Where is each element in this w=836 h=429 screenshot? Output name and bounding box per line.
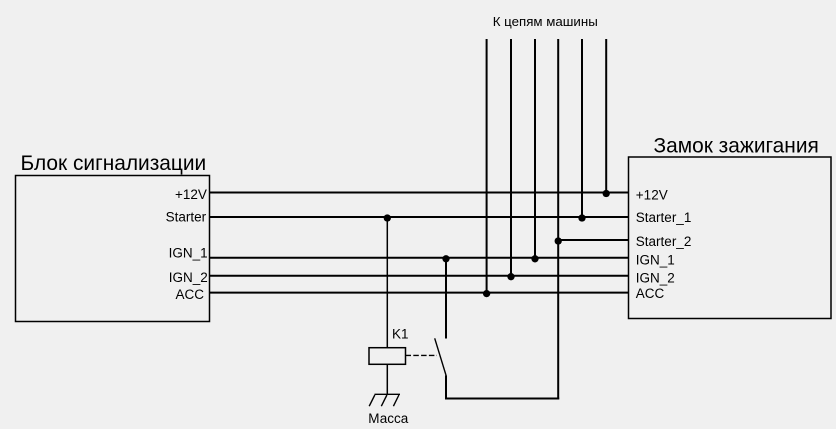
svg-text:Starter_1: Starter_1 — [636, 210, 692, 225]
node on +12V — [603, 190, 610, 197]
wire Starter horizontal — [210, 216, 629, 218]
node on Starter_2 — [555, 237, 562, 244]
svg-text:+12V: +12V — [175, 187, 207, 202]
switch blade of K1 — [435, 338, 446, 375]
svg-text:K1: K1 — [392, 327, 409, 342]
wire vertical 3 to IGN_1 — [534, 39, 536, 258]
wire vertical 2 to IGN_2 — [510, 39, 512, 276]
svg-text:Starter: Starter — [166, 210, 207, 225]
wire ACC horizontal — [210, 292, 629, 294]
wire Starter_2 horizontal — [558, 239, 628, 241]
svg-text:Масса: Масса — [368, 411, 408, 426]
relay K1 coil — [369, 348, 406, 365]
box U1 Блок сигнализации — [16, 176, 210, 322]
svg-text:Блок сигнализации: Блок сигнализации — [21, 152, 207, 175]
node on IGN_2 — [507, 273, 514, 280]
box U2 Замок зажигания — [629, 157, 832, 319]
wire vertical 5 to Starter — [581, 39, 583, 217]
wire switch lower contact — [445, 375, 447, 399]
node on ACC — [483, 290, 490, 297]
wire vertical 6 to +12V — [605, 39, 607, 193]
wire relay coil feed — [386, 217, 388, 348]
node on Starter at vertical 5 — [578, 214, 585, 221]
wire switch fixed contact from IGN_1 — [445, 258, 447, 339]
wire +12V horizontal — [210, 192, 629, 194]
svg-text:IGN_1: IGN_1 — [636, 252, 675, 267]
wire bottom horizontal to vertical 4 — [445, 398, 559, 400]
wire coil to ground — [386, 364, 388, 394]
dashed actuation link — [406, 354, 438, 356]
svg-text:Starter_2: Starter_2 — [636, 234, 692, 249]
svg-text:К цепям машины: К цепям машины — [493, 14, 598, 29]
wire vertical 1 to ACC — [486, 39, 488, 293]
svg-text:IGN_2: IGN_2 — [169, 270, 208, 285]
wire IGN_1 horizontal — [210, 257, 629, 259]
svg-text:+12V: +12V — [636, 188, 668, 203]
svg-text:Замок зажигания: Замок зажигания — [654, 135, 819, 158]
svg-text:IGN_1: IGN_1 — [169, 246, 208, 261]
wire IGN_2 horizontal — [210, 275, 629, 277]
svg-text:ACC: ACC — [636, 286, 665, 301]
node on Starter at relay coil tap — [384, 214, 391, 221]
svg-text:ACC: ACC — [176, 287, 205, 302]
svg-text:IGN_2: IGN_2 — [636, 271, 675, 286]
node on IGN_1 at switch tap — [442, 255, 449, 262]
wire vertical 4 to Starter_2 and relay contact — [557, 39, 559, 399]
node on IGN_1 at vertical 3 — [531, 255, 538, 262]
ground (chassis) — [369, 394, 400, 406]
